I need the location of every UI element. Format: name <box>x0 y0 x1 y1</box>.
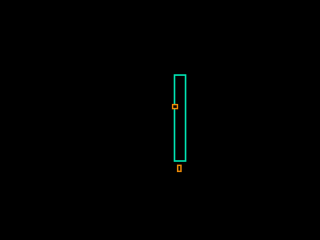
pin 1 pad (orange square on left edge) <box>173 105 178 109</box>
component body R1 (green outline) <box>175 75 186 161</box>
pin 2 pad (orange rect below body) <box>178 165 181 171</box>
